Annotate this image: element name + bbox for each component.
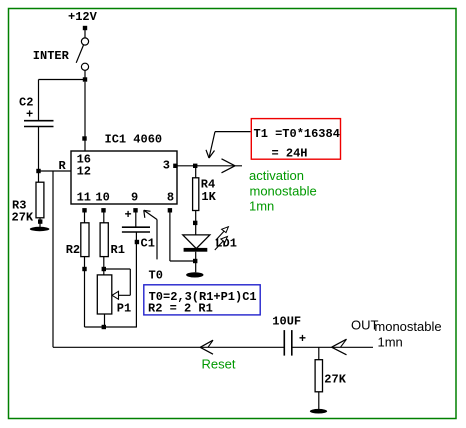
C2 polarity + <box>26 108 33 122</box>
svg-text:8: 8 <box>167 190 174 204</box>
node R junction <box>36 169 40 173</box>
wire: pin 11 to R2 <box>84 213 86 223</box>
C1 label <box>141 236 155 250</box>
svg-text:R2 = 2 R1: R2 = 2 R1 <box>148 301 213 315</box>
junction on rail <box>102 325 106 329</box>
svg-text:C1: C1 <box>141 236 155 250</box>
pin 10 label <box>95 190 109 204</box>
wire: C1 down to rail <box>135 232 137 327</box>
svg-text:+: + <box>125 208 132 222</box>
svg-text:IC1 4060: IC1 4060 <box>105 133 163 147</box>
formula box T1 <box>251 119 340 160</box>
svg-text:R: R <box>59 159 67 173</box>
27K value label <box>324 373 346 387</box>
switch INTER lever <box>76 45 83 63</box>
junction R1/wiper <box>102 267 106 271</box>
svg-text:= 24H: = 24H <box>272 146 308 160</box>
wire: down to C2 <box>38 80 40 121</box>
node T0 label <box>149 268 163 282</box>
P1 label <box>117 301 131 315</box>
svg-text:Reset: Reset <box>202 356 236 371</box>
pin 16 label <box>77 153 91 167</box>
dot below R3 <box>38 219 42 223</box>
pin 12 label <box>77 165 91 179</box>
10UF polarity + <box>299 332 306 346</box>
svg-text:INTER: INTER <box>33 49 70 63</box>
C1 polarity + <box>125 208 132 222</box>
IC U1 label IC1 4060 <box>105 133 163 147</box>
pin 9 label <box>131 190 138 204</box>
capacitor C2 label <box>19 96 33 110</box>
svg-text:T1 =T0*16384: T1 =T0*16384 <box>254 127 340 141</box>
switch INTER bottom contact <box>81 63 88 70</box>
T0 probe arrow at pin 9 <box>144 210 157 259</box>
note: activation monostable 1mn <box>249 168 317 214</box>
reset arrow <box>200 340 213 354</box>
wire: 27K to ground <box>318 392 320 409</box>
switch INTER label <box>33 49 70 63</box>
formula text R2 <box>148 301 213 315</box>
annotation arrow from T1 box <box>206 132 251 158</box>
R3 value 27K <box>12 210 34 224</box>
formula text T0 <box>149 290 257 304</box>
R1 label <box>111 243 125 257</box>
formula text = 24H <box>272 146 308 160</box>
Reset label <box>202 356 236 371</box>
wire: R node to R3 <box>38 171 40 182</box>
capacitor C2 <box>24 121 54 127</box>
junction below switch <box>83 77 87 81</box>
junction on pin 16 wire <box>82 136 86 140</box>
ground below 27K <box>310 409 327 414</box>
wire: +12V to switch <box>84 30 86 38</box>
svg-text:monostable: monostable <box>374 319 441 334</box>
svg-text:+: + <box>26 108 33 122</box>
potentiometer P1 <box>97 275 112 314</box>
pin 10 dot <box>101 208 105 212</box>
ground below LED <box>186 272 203 277</box>
svg-text:12: 12 <box>77 165 91 179</box>
switch INTER top contact <box>81 38 88 45</box>
resistor 27K pulldown <box>315 360 322 392</box>
wire: out node to 27K <box>318 347 320 359</box>
wire: pin 9 to C1 <box>135 213 137 227</box>
LED LD1 anode triangle <box>183 235 210 249</box>
junction LED/pin8 <box>193 259 197 263</box>
wire: R2 to rail <box>84 257 86 327</box>
wire: pin 3 output <box>177 165 242 167</box>
wire: switch to pin 16 <box>84 82 86 151</box>
wire: pin3 junction to R4 <box>195 168 197 178</box>
LD1 label <box>215 237 237 251</box>
wire: R node to pin 12 <box>39 170 72 172</box>
junction pin3/R4 <box>193 164 197 168</box>
pin 11 label <box>77 190 91 204</box>
R4 label <box>201 177 215 191</box>
wire: C2 to R node <box>38 127 40 172</box>
svg-text:P1: P1 <box>117 301 131 315</box>
net +12V label <box>68 10 98 24</box>
node: +12V terminal dot <box>83 26 87 30</box>
LED LD1 cathode bar <box>184 248 208 252</box>
svg-text:R4: R4 <box>201 177 215 191</box>
svg-text:10UF: 10UF <box>272 315 301 329</box>
node R label <box>59 159 67 173</box>
pin 11 dot <box>82 208 86 212</box>
svg-text:10: 10 <box>95 190 109 204</box>
wire: R1 to P1 <box>103 257 105 275</box>
svg-text:9: 9 <box>131 190 138 204</box>
resistor R2 <box>81 223 89 257</box>
pin 8 label <box>167 190 174 204</box>
wire: R3 to ground <box>39 218 41 227</box>
capacitor C1 <box>122 227 150 232</box>
OUT label <box>351 318 379 333</box>
svg-text:T0: T0 <box>149 268 163 282</box>
svg-text:27K: 27K <box>324 373 346 387</box>
pin 3 dot <box>173 164 177 168</box>
R2 label <box>66 243 80 257</box>
svg-text:1mn: 1mn <box>249 199 274 214</box>
R4 value 1K <box>201 190 216 204</box>
OUT arrow <box>332 339 347 355</box>
arrow on pin 3 output <box>222 159 236 173</box>
formula box T0 <box>144 285 260 315</box>
wire: reset vertical run <box>52 171 54 347</box>
op-amp U1 body: IC1 4060 <box>71 151 177 204</box>
wire: P1 to rail <box>104 314 106 327</box>
wire: 10UF to OUT <box>292 346 373 348</box>
wire: junction to C2 branch <box>39 79 86 81</box>
wire: pin 10 to R1 <box>103 213 105 223</box>
capacitor 10UF label <box>272 315 301 329</box>
resistor R3 <box>36 182 44 218</box>
wiper loop of P1 <box>104 269 131 299</box>
note: monostable 1mn <box>374 319 441 350</box>
wire: switch to junction <box>84 70 86 79</box>
wire: pin 8 to LED ground node <box>170 213 196 262</box>
ground below R3 <box>30 227 50 231</box>
formula text T1 =T0*16384 <box>254 127 340 141</box>
reset wire horizontal <box>53 346 284 348</box>
wire: LED cathode to ground <box>195 252 197 273</box>
svg-text:+: + <box>299 332 306 346</box>
junction below R4 <box>193 221 197 225</box>
svg-text:1mn: 1mn <box>378 334 403 349</box>
svg-text:1K: 1K <box>201 190 216 204</box>
pin 3 label <box>163 159 170 173</box>
R3 label <box>12 198 26 212</box>
svg-text:+12V: +12V <box>68 10 98 24</box>
bottom rail wire <box>85 326 137 328</box>
svg-text:R1: R1 <box>111 243 125 257</box>
pin 8 dot <box>168 208 172 212</box>
svg-text:R2: R2 <box>66 243 80 257</box>
capacitor 10UF <box>284 330 292 356</box>
svg-text:11: 11 <box>77 190 91 204</box>
resistor R4 <box>193 178 199 211</box>
resistor R1 <box>100 223 108 257</box>
pin 9 dot <box>133 208 137 212</box>
svg-text:monostable: monostable <box>250 184 317 199</box>
wire: R4 to LED <box>195 211 197 235</box>
svg-text:activation: activation <box>249 168 304 183</box>
junction below C1 <box>135 240 139 244</box>
svg-text:27K: 27K <box>12 210 34 224</box>
LD1 emission arrows <box>215 227 229 250</box>
svg-text:3: 3 <box>163 159 170 173</box>
junction below R2 <box>82 267 86 271</box>
